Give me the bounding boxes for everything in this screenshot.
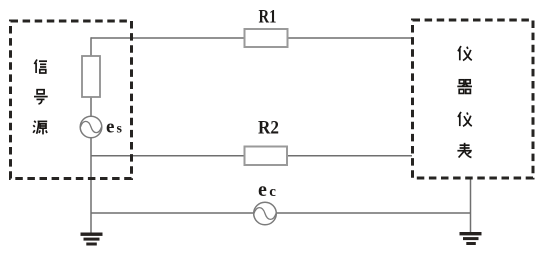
svg-text:c: c [269,184,276,200]
label 表 (biao) of 仪器仪表 [457,143,471,158]
source es (AC source circle) [80,116,102,138]
wire ec horizontal left segment [91,212,254,214]
wire vertical from top wire to resistor Rs [90,37,92,56]
label 仪 (yi, 1st) of 仪器仪表 [458,46,472,60]
source ec (AC source circle) [254,202,277,225]
label 仪 (yi, 2nd) of 仪器仪表 [458,112,472,126]
ground (left) [81,233,103,246]
wire source es bottom down to ground [90,138,92,234]
wire top horizontal left segment [91,37,245,39]
label 号 (hao) of 信号源 [34,90,48,104]
svg-text:R2: R2 [258,118,279,139]
svg-text:e: e [106,117,114,138]
left dashed box (signal source) [11,21,132,179]
resistor Rs (internal source resistance, vertical) [82,56,100,97]
wire right box bottom to ground [470,179,472,233]
right dashed box (instruments) [413,20,534,178]
wire resistor Rs bottom to source es top [90,97,92,117]
label 源 (yuan) of 信号源 [33,121,47,135]
svg-text:e: e [258,179,267,201]
wire top horizontal right segment [288,37,413,39]
ground (right) [460,232,482,245]
label 信 (xin) of 信号源 [34,60,47,74]
svg-text:s: s [117,122,123,137]
resistor R1 body [245,29,288,47]
wire ec horizontal right segment [277,212,471,214]
wire R2 horizontal left segment [91,155,245,157]
resistor R2 body [245,147,288,166]
wire R2 horizontal right segment [287,155,412,157]
svg-text:R1: R1 [259,7,277,28]
label 器 (qi) of 仪器仪表 [457,80,472,94]
